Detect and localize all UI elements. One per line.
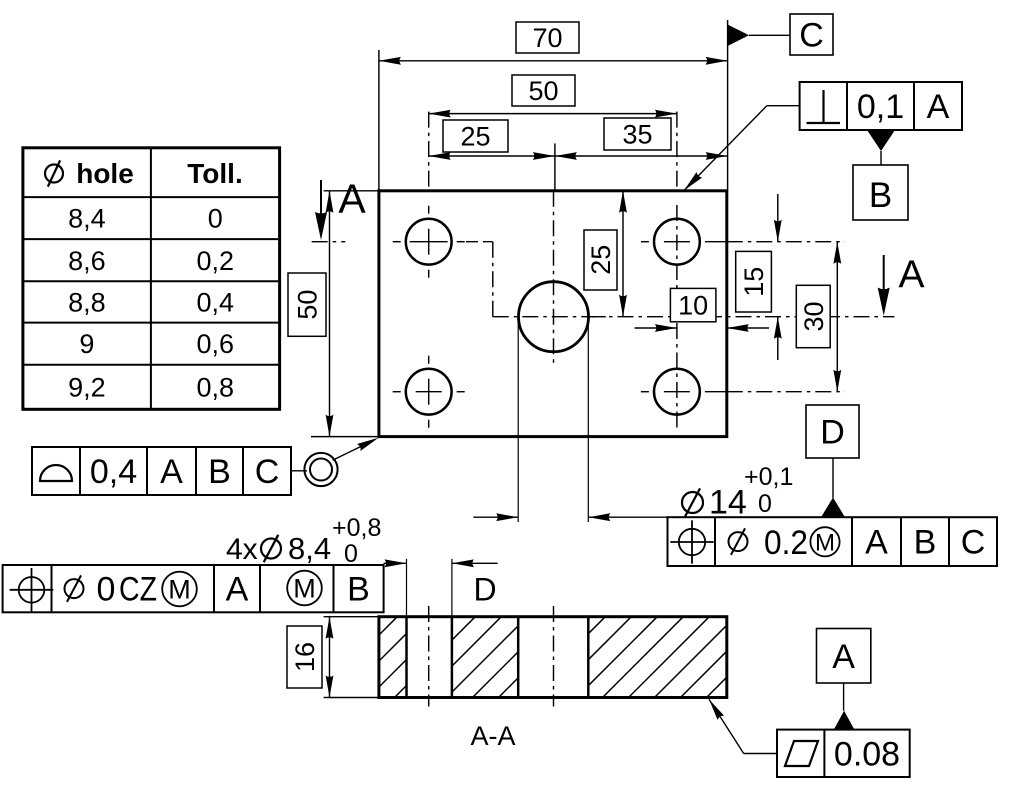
svg-text:C: C (961, 524, 986, 562)
svg-text:8,4: 8,4 (288, 531, 331, 566)
svg-text:14: 14 (709, 484, 747, 522)
svg-text:A: A (832, 638, 855, 676)
svg-text:+0,8: +0,8 (332, 514, 381, 542)
svg-text:0: 0 (758, 490, 772, 518)
svg-text:10: 10 (678, 291, 708, 321)
svg-text:CZ: CZ (119, 571, 157, 609)
svg-text:0: 0 (97, 571, 116, 609)
svg-text:C: C (255, 453, 280, 491)
svg-text:0.08: 0.08 (834, 735, 900, 773)
svg-text:8,6: 8,6 (68, 246, 106, 276)
svg-text:A: A (865, 524, 888, 562)
svg-text:0,2: 0,2 (196, 246, 234, 276)
svg-text:25: 25 (460, 122, 490, 152)
svg-text:A: A (160, 453, 183, 491)
svg-text:A: A (898, 254, 924, 297)
svg-text:0,1: 0,1 (857, 88, 904, 126)
svg-text:9,2: 9,2 (68, 373, 106, 403)
svg-text:8,8: 8,8 (68, 288, 106, 318)
svg-text:A: A (338, 176, 366, 222)
svg-text:70: 70 (532, 23, 562, 53)
svg-text:B: B (914, 524, 937, 562)
svg-text:9: 9 (79, 329, 94, 359)
svg-text:+0,1: +0,1 (744, 463, 793, 491)
svg-text:D: D (820, 414, 845, 452)
svg-text:B: B (347, 571, 370, 609)
svg-text:M: M (815, 529, 835, 556)
svg-text:A: A (927, 88, 950, 126)
svg-text:25: 25 (586, 245, 616, 275)
svg-text:B: B (869, 176, 892, 215)
svg-text:0,4: 0,4 (90, 453, 137, 491)
svg-text:16: 16 (290, 642, 320, 672)
svg-text:50: 50 (528, 76, 558, 106)
svg-text:Toll.: Toll. (187, 158, 242, 189)
svg-text:A: A (226, 571, 249, 609)
svg-text:50: 50 (293, 290, 323, 320)
svg-text:0,4: 0,4 (196, 288, 234, 318)
svg-text:hole: hole (76, 158, 134, 189)
svg-text:35: 35 (622, 120, 652, 150)
svg-text:30: 30 (799, 301, 829, 331)
svg-text:D: D (473, 572, 496, 608)
svg-text:4x: 4x (226, 533, 258, 566)
svg-text:0.2: 0.2 (764, 524, 808, 562)
svg-text:0,8: 0,8 (196, 373, 234, 403)
svg-text:B: B (208, 453, 231, 491)
svg-text:0: 0 (208, 204, 223, 234)
svg-text:A-A: A-A (470, 721, 515, 751)
svg-text:M: M (168, 575, 191, 605)
svg-text:0: 0 (344, 540, 358, 568)
svg-text:C: C (799, 17, 824, 55)
svg-text:M: M (293, 574, 316, 604)
svg-text:15: 15 (739, 267, 769, 297)
svg-text:0,6: 0,6 (196, 329, 234, 359)
svg-text:8,4: 8,4 (68, 204, 106, 234)
